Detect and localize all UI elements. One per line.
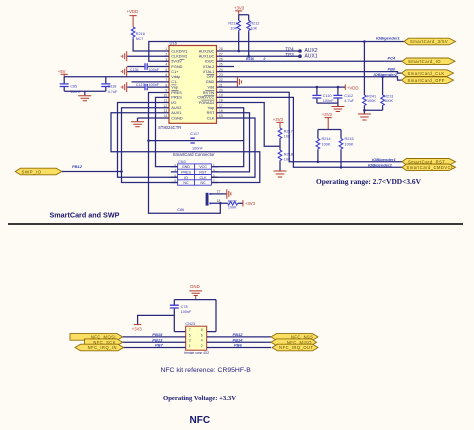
wire pin2 row: [127, 55, 169, 57]
wire R202 to +3V3: [238, 202, 243, 204]
junction pulldown ground: [363, 109, 366, 112]
svg-text:IOBigender1: IOBigender1: [376, 36, 401, 41]
wire R214 to RST row: [317, 150, 319, 162]
wire pin15 CLK to table row3 right: [211, 118, 255, 177]
wire R215 to CMDVCC row: [340, 150, 342, 167]
table CN3 smartcard connector: [178, 164, 212, 185]
port SWP_IO: [15, 168, 62, 175]
svg-text:4: 4: [201, 339, 203, 343]
wire branch to +3V3 nfc: [138, 315, 175, 324]
resistor R241: [363, 42, 367, 107]
port NFC_NSS: [271, 334, 318, 341]
wire pin19 CMDVCC to SmartCard_CMDVCC: [217, 97, 403, 167]
junction C117 branch: [147, 139, 150, 142]
port NFC_MOSI: [70, 334, 123, 341]
svg-text:IOBigender1: IOBigender1: [372, 157, 397, 162]
svg-text:ST8024CTR: ST8024CTR: [158, 125, 181, 130]
svg-text:TP3: TP3: [285, 52, 294, 57]
svg-text:PB6: PB6: [234, 343, 243, 348]
svg-text:C117: C117: [190, 132, 199, 136]
IC right pin numbers: [219, 47, 223, 118]
wire pin11 I/O to table row3: [118, 103, 178, 178]
resistor R211: [237, 21, 241, 32]
power +VDD above R216: [127, 9, 139, 27]
svg-text:CN23: CN23: [185, 322, 195, 326]
wire NFC SCK row: [123, 341, 186, 343]
svg-text:100K: 100K: [384, 99, 393, 103]
svg-text:10K: 10K: [284, 135, 291, 139]
junction C110: [316, 86, 319, 89]
svg-text:XTAL2: XTAL2: [203, 65, 214, 69]
svg-text:RSTIN: RSTIN: [203, 91, 215, 95]
IC pin name overlines: [171, 59, 214, 100]
IC left pin names: [171, 49, 187, 120]
svg-text:CLKDIV1: CLKDIV1: [171, 49, 187, 53]
bar ground C112: [331, 107, 344, 112]
svg-text:IOBigender2: IOBigender2: [368, 162, 393, 167]
wire switch pin18: [211, 202, 227, 204]
svg-text:R215: R215: [345, 137, 354, 141]
svg-text:C118: C118: [108, 84, 117, 88]
wire pin14 CGND: [138, 118, 170, 121]
resistor R212: [247, 21, 251, 32]
wire pin10 PRES to table row1: [156, 97, 178, 166]
svg-text:+3V3: +3V3: [132, 327, 143, 332]
wire R218 to ground: [279, 162, 281, 171]
svg-text:NFC_IRQ_IN: NFC_IRQ_IN: [88, 345, 117, 350]
svg-text:XTAL1: XTAL1: [203, 70, 214, 74]
wire NFC MOSI row: [123, 336, 186, 338]
port NFC_SCK: [85, 339, 123, 346]
wire +5V to pin6 Vddp: [64, 76, 169, 78]
svg-text:RST: RST: [199, 171, 207, 175]
earth ground row8: [121, 82, 127, 92]
svg-text:PRES: PRES: [181, 171, 191, 175]
svg-text:PRES: PRES: [171, 96, 182, 100]
svg-text:NFC_IRQ_OUT: NFC_IRQ_OUT: [279, 345, 313, 350]
capacitor C118: [101, 77, 110, 91]
svg-text:R202: R202: [228, 199, 237, 203]
wire pin28 AUX2UC to TP4: [217, 50, 301, 52]
svg-text:8: 8: [201, 328, 203, 332]
power +3V3 above R217: [273, 117, 284, 128]
svg-text:Operating range: 2.7<VDD<3.6V: Operating range: 2.7<VDD<3.6V: [316, 177, 422, 186]
port NFC_IRQ_IN: [75, 344, 124, 351]
IC right pin names: [197, 49, 215, 120]
wire pin12 AUX2 to table row4: [122, 108, 178, 183]
earth ground R218: [274, 171, 287, 177]
wire pin4 row with C136: [127, 66, 169, 68]
earth ground R241 R213: [358, 114, 371, 120]
wire GND bus left leg to C78: [173, 300, 175, 305]
IC left pin numbers: [164, 47, 168, 118]
svg-text:CLK: CLK: [207, 116, 215, 120]
svg-text:C110: C110: [323, 94, 332, 98]
bar ground CGND: [131, 122, 144, 127]
wire NFC IRQ_OUT row: [207, 347, 271, 349]
wire pin13 AUX1 outer loop: [111, 113, 260, 183]
earth ground row5: [121, 67, 127, 77]
svg-text:C1-: C1-: [171, 80, 178, 84]
svg-text:SmartCard and SWP: SmartCard and SWP: [50, 210, 120, 219]
resistor R202: [228, 202, 238, 206]
svg-text:0: 0: [264, 57, 266, 61]
svg-text:+VDD: +VDD: [347, 85, 359, 90]
wire NFC MISO row: [207, 341, 271, 343]
wire switch pin17 to chassis: [211, 193, 226, 195]
svg-text:3: 3: [189, 339, 191, 343]
wire pin7 row: [132, 81, 170, 83]
svg-text:SmartCard_IO: SmartCard_IO: [408, 59, 441, 64]
junction R215: [340, 166, 343, 169]
svg-text:R214: R214: [322, 137, 331, 141]
svg-text:AUX2: AUX2: [171, 106, 181, 110]
svg-text:PB13: PB13: [152, 337, 163, 342]
wire +3V3 to both resistors: [239, 15, 249, 21]
svg-text:SmartCard_CLK: SmartCard_CLK: [408, 71, 445, 76]
wire caps ground bus: [317, 103, 338, 106]
wire C78 bottom to pin7: [174, 309, 185, 332]
resistor R217: [278, 128, 282, 140]
port NFC_MISO: [271, 339, 317, 346]
svg-text:C86: C86: [177, 208, 184, 212]
table CN3 right pin numbers: [213, 163, 215, 183]
wire pin5 row: [127, 71, 169, 73]
junction R214: [317, 161, 320, 164]
capacitor C136: [145, 63, 147, 69]
svg-text:100K: 100K: [345, 143, 354, 147]
junction R213 top: [381, 76, 384, 79]
resistor R215: [339, 139, 343, 151]
port SmartCard_RST: [402, 159, 456, 166]
table CN3 right stubs: [211, 167, 218, 183]
wire R212 to pin27 row: [248, 32, 250, 57]
svg-text:C112: C112: [344, 94, 353, 98]
svg-text:C65: C65: [70, 84, 77, 88]
svg-text:I/O: I/O: [171, 101, 176, 105]
svg-text:17: 17: [217, 189, 221, 193]
wire PRES net down to switch pullup node: [149, 141, 221, 214]
svg-text:AUX1UC: AUX1UC: [199, 55, 215, 59]
svg-text:PB12: PB12: [72, 164, 83, 169]
svg-text:5V/3V: 5V/3V: [171, 60, 182, 64]
svg-text:SmartCard_CMDVCC: SmartCard_CMDVCC: [407, 165, 455, 170]
svg-text:SWP_IO: SWP_IO: [22, 169, 42, 174]
chassis earth switch: [227, 189, 231, 198]
svg-text:PORADJ: PORADJ: [199, 101, 215, 105]
svg-text:5: 5: [189, 333, 191, 337]
svg-text:100nF: 100nF: [181, 310, 192, 314]
testpoint TP4 pad: [298, 49, 302, 53]
svg-text:IOBigender2: IOBigender2: [374, 72, 399, 77]
table CN3 left stubs: [171, 167, 178, 183]
wire pin21 Vdd rail: [217, 86, 346, 88]
svg-text:C137: C137: [136, 83, 145, 87]
svg-text:1: 1: [189, 344, 191, 348]
connector CN23: [186, 326, 207, 350]
wire GND bus nfc: [174, 299, 216, 301]
junction SWP tap: [120, 170, 123, 173]
svg-text:IO: IO: [184, 176, 188, 180]
svg-text:female conn 4X2: female conn 4X2: [184, 351, 209, 355]
svg-text:GND: GND: [206, 80, 215, 84]
svg-text:6: 6: [201, 333, 203, 337]
svg-text:GND: GND: [190, 284, 200, 289]
svg-text:Operating Voltage: +3.3V: Operating Voltage: +3.3V: [163, 395, 236, 402]
resistor R218: [278, 150, 282, 162]
capacitor C78: [170, 305, 179, 308]
power +3V3 above R214 R215: [322, 112, 333, 129]
svg-text:C1+: C1+: [171, 70, 179, 74]
svg-text:+3V3: +3V3: [245, 201, 256, 206]
svg-text:R218: R218: [284, 153, 293, 157]
svg-text:+3V3: +3V3: [273, 117, 284, 122]
wire R241 R213 bottoms: [364, 107, 382, 114]
resistor R216: [131, 27, 135, 39]
wire pin17 Vup to table row1 right: [211, 108, 243, 167]
svg-text:100K: 100K: [228, 206, 237, 210]
svg-text:4.7uF: 4.7uF: [344, 99, 354, 103]
wire pin23 OFF to SmartCard_OFF: [217, 77, 402, 80]
svg-text:100nF: 100nF: [192, 146, 203, 150]
svg-text:Vup: Vup: [171, 85, 178, 89]
card detect switch: [206, 193, 212, 206]
port SmartCard_CMDVCC: [402, 164, 456, 171]
svg-text:PC4: PC4: [388, 56, 397, 61]
power +3V3 switch: [243, 200, 256, 206]
svg-text:NC: NC: [200, 181, 206, 185]
svg-text:NFC kit reference: CR95HF-B: NFC kit reference: CR95HF-B: [161, 367, 252, 374]
wire NFC NSS row: [207, 336, 271, 338]
wire R211 to pin28 row: [238, 32, 240, 52]
power +3V3 nfc (down): [132, 325, 143, 332]
testpoint TP3 pad: [298, 54, 302, 58]
junction R212: [247, 55, 250, 58]
port NFC_IRQ_OUT: [272, 344, 318, 351]
svg-text:PRES: PRES: [171, 91, 182, 95]
svg-text:NC7: NC7: [136, 37, 144, 41]
capacitor C65: [60, 77, 69, 91]
svg-text:AUX2UC: AUX2UC: [199, 49, 215, 53]
CN23 pin numbers: [189, 328, 203, 348]
wire SWP_IO to loop: [62, 171, 122, 173]
wire pin20 RSTIN to SmartCard_RST: [217, 92, 403, 162]
junction R241 top: [363, 40, 366, 43]
wire GND bus right leg to pin8: [207, 300, 216, 332]
svg-text:2: 2: [201, 344, 203, 348]
wire pin9 PRES to C117 net: [149, 93, 244, 141]
table CN3 cell texts: [181, 165, 207, 185]
resistor R213: [381, 77, 385, 107]
svg-text:R216: R216: [136, 32, 145, 36]
svg-text:10K: 10K: [250, 26, 257, 30]
svg-text:PB15: PB15: [152, 332, 163, 337]
wire caps bottom bus: [64, 91, 106, 95]
port SmartCard_IO: [402, 58, 455, 65]
wire NFC IRQ_IN row: [124, 347, 186, 349]
svg-text:AUX1: AUX1: [171, 111, 181, 115]
svg-text:PGND: PGND: [171, 65, 182, 69]
power +VDD right: [345, 84, 358, 90]
svg-text:SmartCard_OFF: SmartCard_OFF: [408, 78, 445, 83]
wire pullup bus R214 R215: [318, 130, 341, 139]
IC U16 body: [169, 46, 217, 124]
svg-text:+3V3: +3V3: [234, 5, 245, 10]
svg-text:R212: R212: [250, 21, 259, 25]
svg-text:R241: R241: [367, 95, 376, 99]
wire pin26 IOUC to SmartCard_IO: [217, 60, 403, 62]
junction loop to pin18: [219, 202, 222, 205]
svg-text:R230: R230: [246, 57, 254, 61]
earth ground pin22: [237, 77, 241, 87]
wire pin16 RST to table row2 right: [211, 113, 249, 172]
svg-text:10K: 10K: [284, 158, 291, 162]
svg-text:100nF: 100nF: [149, 83, 160, 87]
wire pin18 PORADJ to divider: [217, 103, 281, 147]
svg-text:R211: R211: [228, 21, 237, 25]
svg-text:+VDD: +VDD: [127, 9, 139, 14]
svg-text:PB7: PB7: [155, 343, 164, 348]
svg-text:R213: R213: [384, 95, 393, 99]
capacitor C137: [145, 84, 147, 90]
svg-text:OFF: OFF: [207, 75, 215, 79]
svg-text:SmartCard Connector: SmartCard Connector: [173, 152, 215, 157]
svg-text:7: 7: [189, 328, 191, 332]
svg-text:VCC: VCC: [199, 165, 207, 169]
svg-text:CMDVCC: CMDVCC: [197, 96, 214, 100]
power +3V3 above R211 R212: [234, 5, 245, 14]
svg-text:IOUC: IOUC: [205, 60, 215, 64]
svg-text:CLKDIV2: CLKDIV2: [171, 55, 187, 59]
junction R211: [237, 50, 240, 53]
svg-text:Vup: Vup: [208, 106, 215, 110]
wire pin24 XTAL1 to SmartCard_CLK: [217, 72, 402, 74]
wire pin 3 to 3/5V long net: [149, 42, 404, 62]
svg-text:AUX1: AUX1: [305, 54, 318, 60]
junction C112: [337, 86, 340, 89]
port SmartCard_CLK: [402, 70, 454, 77]
svg-text:10K: 10K: [230, 26, 237, 30]
power +5V: [58, 69, 68, 77]
capacitor C112: [333, 87, 342, 103]
port SmartCard_OFF: [402, 77, 454, 84]
svg-text:PB14: PB14: [233, 337, 244, 342]
svg-text:+3V3: +3V3: [322, 112, 333, 117]
svg-text:100K: 100K: [367, 99, 376, 103]
wire pin27 AUX1UC to TP3: [217, 55, 301, 57]
wire pin8 row with C137: [127, 86, 169, 88]
svg-text:+5V: +5V: [58, 69, 66, 74]
svg-text:R217: R217: [284, 130, 293, 134]
svg-text:SmartCard_3/5V: SmartCard_3/5V: [410, 39, 448, 44]
resistor R214: [316, 139, 320, 151]
svg-text:CGND: CGND: [171, 116, 183, 120]
svg-text:Vdd: Vdd: [207, 85, 214, 89]
port SmartCard_3/5V: [404, 38, 456, 45]
wire pin25 XTAL2 stub: [217, 66, 235, 68]
svg-text:C78: C78: [181, 305, 188, 309]
svg-text:NC: NC: [183, 181, 189, 185]
earth ground row2: [121, 51, 127, 61]
svg-text:100K: 100K: [322, 143, 331, 147]
separator line: [8, 223, 463, 225]
table CN3 left pin numbers: [174, 163, 176, 183]
svg-text:PB12: PB12: [233, 332, 244, 337]
capacitor C117: [190, 138, 194, 143]
wire pin22 GND to earth: [217, 81, 238, 83]
port GND nfc: [189, 284, 202, 300]
svg-text:4.7uF: 4.7uF: [108, 90, 118, 94]
svg-text:TP4: TP4: [285, 47, 294, 52]
svg-text:GND: GND: [182, 165, 190, 169]
wire R216 to pin 1: [133, 39, 169, 51]
capacitor C110: [312, 87, 321, 103]
svg-text:RST: RST: [207, 111, 215, 115]
bar ground C65 C118: [78, 96, 91, 101]
wire divider node: [279, 140, 281, 151]
svg-text:Vddp: Vddp: [171, 75, 180, 79]
svg-text:CLK: CLK: [200, 176, 208, 180]
svg-text:NFC: NFC: [190, 415, 211, 426]
